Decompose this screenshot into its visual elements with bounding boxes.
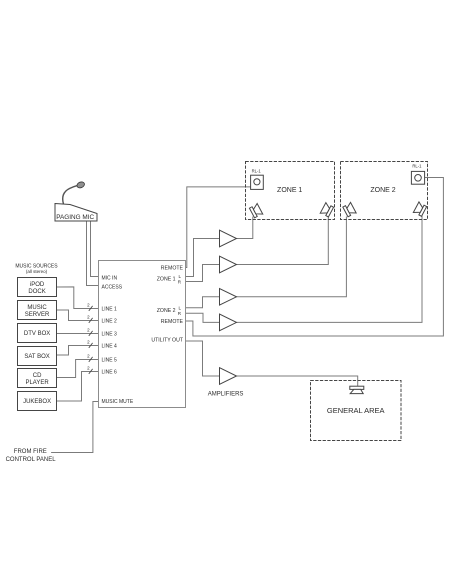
svg-text:AMPLIFIERS: AMPLIFIERS [208, 392, 244, 398]
svg-text:ZONE 2: ZONE 2 [370, 187, 395, 194]
svg-text:ZONE 2: ZONE 2 [157, 308, 176, 314]
svg-text:CD: CD [33, 373, 42, 379]
svg-text:GENERAL AREA: GENERAL AREA [327, 406, 385, 415]
svg-text:LINE 1: LINE 1 [102, 306, 118, 312]
svg-text:PAGING MIC: PAGING MIC [56, 214, 94, 221]
svg-text:LINE 4: LINE 4 [102, 343, 118, 349]
svg-text:(all stereo): (all stereo) [26, 269, 48, 274]
svg-text:iPOD: iPOD [30, 282, 45, 288]
svg-text:RL-1: RL-1 [412, 164, 422, 169]
svg-text:MUSIC: MUSIC [27, 305, 47, 311]
svg-text:ZONE 1: ZONE 1 [277, 187, 302, 194]
svg-text:LINE 3: LINE 3 [102, 331, 118, 337]
svg-text:LINE 5: LINE 5 [102, 357, 118, 363]
svg-text:SAT BOX: SAT BOX [24, 354, 49, 360]
svg-text:MUSIC MUTE: MUSIC MUTE [102, 399, 134, 405]
svg-text:CONTROL PANEL: CONTROL PANEL [6, 457, 57, 463]
svg-text:ACCESS: ACCESS [102, 284, 123, 290]
svg-text:RL-1: RL-1 [252, 168, 262, 173]
svg-text:SERVER: SERVER [25, 312, 50, 318]
svg-text:REMOTE: REMOTE [161, 265, 184, 271]
svg-text:PLAYER: PLAYER [25, 380, 49, 386]
svg-text:DTV BOX: DTV BOX [24, 331, 50, 337]
svg-text:JUKEBOX: JUKEBOX [23, 399, 51, 405]
svg-text:FROM FIRE: FROM FIRE [14, 449, 47, 455]
svg-text:LINE 6: LINE 6 [102, 369, 118, 375]
svg-text:LINE 2: LINE 2 [102, 318, 118, 324]
svg-text:DOCK: DOCK [28, 289, 45, 295]
svg-text:ZONE 1: ZONE 1 [157, 277, 176, 283]
svg-text:REMOTE: REMOTE [161, 319, 184, 325]
svg-text:UTILITY OUT: UTILITY OUT [151, 338, 183, 344]
svg-text:MIC IN: MIC IN [102, 275, 118, 281]
